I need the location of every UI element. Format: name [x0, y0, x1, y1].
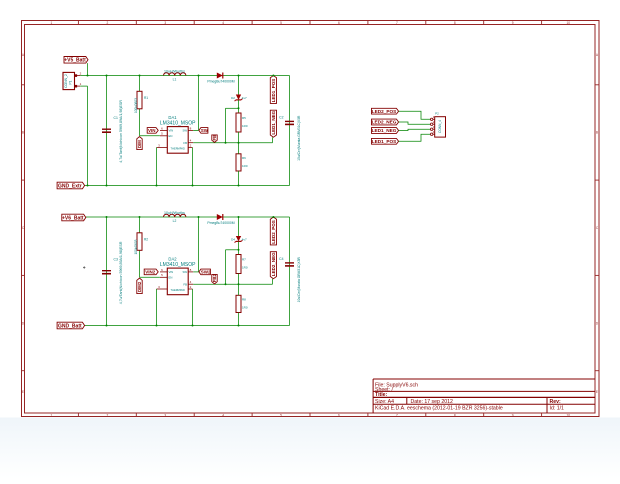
svg-text:LED2_NEG: LED2_NEG — [271, 252, 276, 276]
svg-text:LED1_POS: LED1_POS — [372, 139, 397, 144]
svg-text:+V5_Batt: +V5_Batt — [64, 58, 86, 64]
svg-text:2: 2 — [106, 413, 108, 417]
svg-text:DA2: DA2 — [168, 257, 177, 262]
svg-text:CONN_4: CONN_4 — [438, 120, 442, 133]
svg-text:10uH/Wurths: 10uH/Wurths — [164, 70, 185, 74]
svg-text:R1: R1 — [144, 96, 148, 100]
svg-text:C3: C3 — [114, 258, 118, 262]
svg-text:LED1_NEG: LED1_NEG — [271, 110, 276, 134]
svg-text:9: 9 — [512, 413, 514, 417]
svg-text:10u/Cer(Murata GRM31C)X5R: 10u/Cer(Murata GRM31C)X5R — [297, 115, 301, 161]
svg-text:1: 1 — [51, 413, 53, 417]
svg-text:7: 7 — [396, 413, 398, 417]
svg-text:DA1: DA1 — [168, 115, 177, 120]
svg-text:3: 3 — [164, 413, 166, 417]
svg-text:PmegBu740000M: PmegBu740000M — [207, 221, 234, 225]
svg-text:Size: A4: Size: A4 — [375, 399, 394, 405]
svg-text:Title:: Title: — [375, 392, 388, 398]
svg-text:EN: EN — [169, 276, 173, 280]
svg-text:VIN: VIN — [169, 270, 174, 274]
svg-text:8: 8 — [454, 21, 456, 25]
svg-text:B: B — [596, 131, 598, 135]
svg-text:8: 8 — [454, 413, 456, 417]
svg-text:THERMPAD: THERMPAD — [171, 146, 185, 150]
svg-text:P2: P2 — [435, 112, 439, 116]
svg-text:THERMPAD: THERMPAD — [171, 288, 185, 292]
svg-text:R6: R6 — [242, 156, 246, 160]
svg-text:C4: C4 — [279, 257, 283, 261]
svg-text:SW: SW — [182, 270, 187, 274]
svg-text:E: E — [22, 390, 24, 394]
svg-text:6: 6 — [338, 413, 340, 417]
svg-text:L1: L1 — [173, 78, 177, 82]
svg-text:LED2_POS: LED2_POS — [271, 220, 276, 244]
svg-text:5: 5 — [280, 21, 282, 25]
svg-text:Id: 1/1: Id: 1/1 — [550, 406, 565, 412]
svg-text:FB: FB — [183, 282, 187, 286]
svg-text:+V6_Batt: +V6_Batt — [62, 215, 84, 221]
svg-text:VIN2: VIN2 — [145, 270, 156, 275]
svg-text:2: 2 — [106, 21, 108, 25]
svg-text:10uH/Wurths: 10uH/Wurths — [164, 211, 185, 215]
svg-text:CONN_2: CONN_2 — [64, 74, 68, 88]
svg-text:PmegBu740000M: PmegBu740000M — [207, 79, 234, 83]
svg-text:FB: FB — [212, 135, 217, 141]
svg-text:GND_Extr: GND_Extr — [58, 183, 82, 189]
svg-text:4v7: 4v7 — [242, 238, 247, 242]
svg-text:KiCad E.D.A. eeschema (2012-0: KiCad E.D.A. eeschema (2012-01-19 BZR 32… — [375, 406, 503, 412]
svg-text:P1: P1 — [69, 80, 73, 84]
svg-text:7: 7 — [396, 21, 398, 25]
svg-text:10u/Cer(Murata GRM31C)X5R: 10u/Cer(Murata GRM31C)X5R — [297, 256, 301, 302]
svg-text:LED1_NEG: LED1_NEG — [372, 128, 397, 133]
svg-text:4,7u/Tant(Nichicon 5969,89A/1,: 4,7u/Tant(Nichicon 5969,89A/1,98)ESR — [119, 241, 123, 304]
svg-text:Date: 17 sep 2012: Date: 17 sep 2012 — [411, 399, 454, 405]
svg-text:FB: FB — [183, 141, 187, 145]
svg-text:LED2_POS: LED2_POS — [372, 109, 397, 114]
svg-text:1R0: 1R0 — [242, 266, 248, 270]
svg-text:SW: SW — [182, 129, 187, 133]
svg-text:1R0: 1R0 — [242, 164, 248, 168]
svg-text:C1: C1 — [114, 116, 118, 120]
svg-text:D2: D2 — [231, 96, 235, 100]
svg-text:D4: D4 — [231, 238, 235, 242]
svg-text:C2: C2 — [279, 116, 283, 120]
svg-text:DIM2: DIM2 — [137, 281, 142, 292]
svg-text:SW: SW — [201, 128, 209, 133]
svg-text:10: 10 — [567, 413, 571, 417]
svg-text:100k/0603: 100k/0603 — [134, 239, 138, 254]
svg-text:DIM: DIM — [137, 140, 142, 148]
svg-text:4,7u/Tant(Nichicon 5969,89A/1,: 4,7u/Tant(Nichicon 5969,89A/1,98)ESR — [119, 100, 123, 163]
svg-text:1R0: 1R0 — [242, 124, 248, 128]
svg-text:9: 9 — [512, 21, 514, 25]
svg-text:100k/0603: 100k/0603 — [134, 98, 138, 113]
svg-text:B: B — [22, 131, 24, 135]
svg-text:R7: R7 — [242, 258, 246, 262]
svg-text:1: 1 — [51, 21, 53, 25]
svg-text:VIN: VIN — [169, 129, 174, 133]
svg-text:5: 5 — [280, 413, 282, 417]
svg-text:3: 3 — [164, 21, 166, 25]
svg-text:LED2_NEG: LED2_NEG — [372, 120, 397, 125]
svg-text:4: 4 — [222, 21, 224, 25]
svg-text:1R0: 1R0 — [242, 306, 248, 310]
svg-text:Rev:: Rev: — [550, 399, 562, 405]
svg-text:6: 6 — [338, 21, 340, 25]
svg-text:4v7: 4v7 — [242, 96, 247, 100]
svg-text:4: 4 — [222, 413, 224, 417]
svg-text:GND_Batt: GND_Batt — [58, 323, 82, 329]
svg-text:E: E — [596, 390, 598, 394]
svg-text:10: 10 — [567, 21, 571, 25]
svg-text:R8: R8 — [242, 298, 246, 302]
svg-text:VIN: VIN — [148, 128, 156, 133]
svg-text:EN: EN — [169, 134, 173, 138]
svg-text:R5: R5 — [242, 116, 246, 120]
svg-text:L2: L2 — [173, 219, 177, 223]
svg-text:R2: R2 — [144, 238, 148, 242]
svg-text:LED1_POS: LED1_POS — [271, 79, 276, 103]
svg-text:FB2: FB2 — [212, 273, 217, 282]
svg-text:SW2: SW2 — [201, 270, 211, 275]
